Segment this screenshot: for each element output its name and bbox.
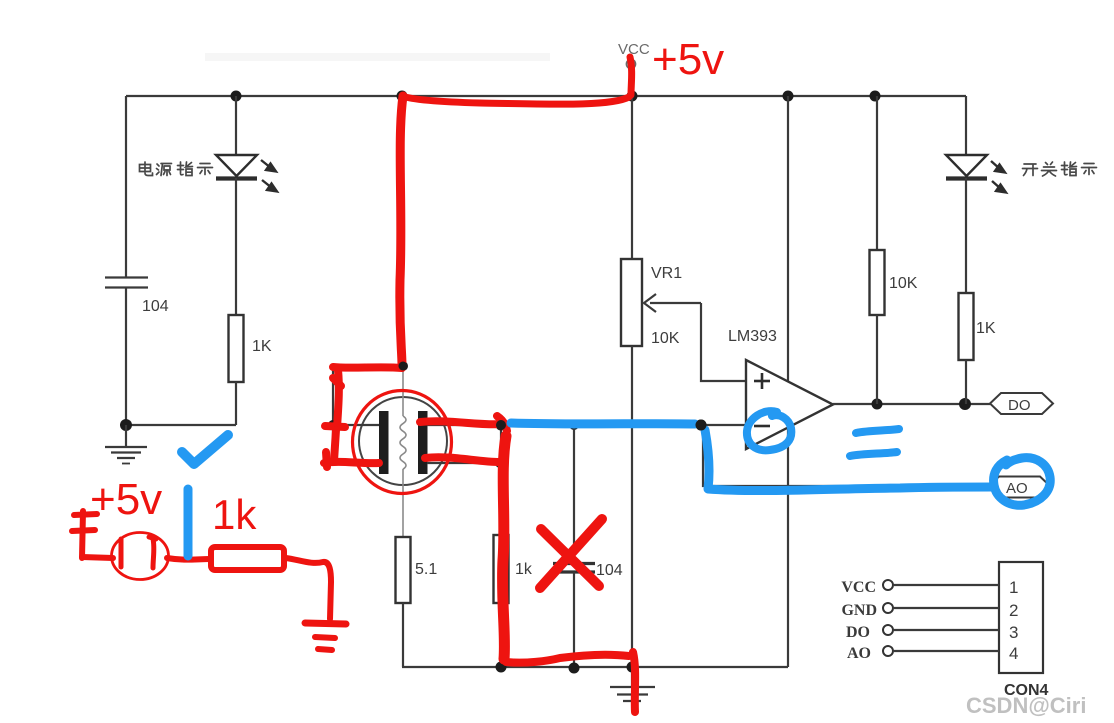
svg-text:CSDN@Ciri: CSDN@Ciri <box>966 693 1086 718</box>
wire R2 to bottom rail <box>500 603 502 667</box>
svg-text:LM393: LM393 <box>728 328 777 345</box>
svg-text:GND: GND <box>841 602 877 619</box>
wire C2 upper <box>573 425 575 562</box>
wire bottom-left <box>126 424 236 426</box>
net tag DO <box>990 393 1053 414</box>
svg-text:3: 3 <box>1009 623 1018 642</box>
blue trace minus to AO <box>705 430 993 491</box>
wire top VCC rail <box>126 95 966 97</box>
ground GND1 <box>105 425 147 464</box>
node top rail junction C (VCC) <box>627 91 638 102</box>
wire bottom ground rail <box>402 666 788 668</box>
svg-text:DO: DO <box>1008 397 1031 414</box>
red trace VCC to top rail <box>630 57 632 95</box>
resistor R5 5.1 <box>396 537 411 603</box>
faint scan smudge top <box>205 53 550 61</box>
wire R1 to bottom-left <box>235 382 237 425</box>
svg-text:104: 104 <box>596 562 623 579</box>
wire D2 to R4 <box>965 178 967 293</box>
wire 10K pullup lower <box>876 315 878 404</box>
connector pin 3 <box>883 623 1018 642</box>
blue trace analog wire <box>511 423 695 424</box>
node output junction D2 <box>959 398 971 410</box>
red hand battery symbol <box>72 511 97 558</box>
capacitor C2 104 <box>553 564 595 573</box>
red hand sensor circle <box>112 533 169 580</box>
potentiometer VR1 wiper arrow <box>644 294 701 312</box>
wire sensor right pin lower <box>427 462 501 464</box>
node top rail junction B <box>397 91 408 102</box>
red trace sensor right pin lower <box>425 457 500 462</box>
node top rail junction D <box>783 91 794 102</box>
red trace sensor VCC drop <box>400 96 403 366</box>
red hand wire battery to sensor <box>82 557 113 558</box>
LED D1 (power indicator) <box>216 155 277 192</box>
blue circle around AO tag <box>994 458 1051 506</box>
op-amp U1 LM393 <box>746 360 833 449</box>
wire left rail lower <box>125 288 127 425</box>
sensor electrode right <box>418 411 428 474</box>
node op-amp minus junction (top copy) <box>696 420 707 431</box>
svg-text:4: 4 <box>1009 644 1018 663</box>
blue vertical bar <box>184 489 193 556</box>
sensor heater coil <box>400 416 406 469</box>
wire analog signal <box>501 424 746 426</box>
wire left rail upper <box>125 96 127 277</box>
sensor heater wire upper (grey) <box>402 366 404 416</box>
node sensor heater top junction <box>398 361 408 371</box>
svg-text:DO: DO <box>846 624 870 641</box>
svg-text:104: 104 <box>142 298 169 315</box>
blue equals sign <box>850 429 899 456</box>
node sensor output junction <box>496 420 507 431</box>
node bottom rail junction C2 <box>569 663 580 674</box>
wire wiper to op-amp plus <box>701 303 746 381</box>
wire op-amp minus AO branch <box>703 425 988 486</box>
resistor R1 1K (left) <box>229 315 244 382</box>
node sensor heater top junction (top copy) <box>399 362 408 371</box>
svg-text:2: 2 <box>1009 601 1018 620</box>
potentiometer VR1 body <box>621 259 642 346</box>
power VCC terminal <box>618 41 650 96</box>
svg-text:+5v: +5v <box>90 475 162 524</box>
node left-ground junction <box>120 419 132 431</box>
svg-text:5.1: 5.1 <box>415 561 437 578</box>
wire 10K pullup upper <box>876 96 878 250</box>
svg-text:1k: 1k <box>515 561 533 578</box>
wire VR1 to bottom rail <box>631 346 633 667</box>
wire LM393 V+ column <box>787 96 789 667</box>
svg-text:VCC: VCC <box>841 579 876 596</box>
wire sensor right pin upper <box>427 424 501 426</box>
node sensor output junction (top copy) <box>496 420 506 430</box>
red hand ground <box>305 623 346 650</box>
svg-text:VCC: VCC <box>618 41 650 58</box>
ground GND2 <box>610 667 655 701</box>
node sensor lower pin junction <box>495 458 505 468</box>
red trace sensor left feed <box>324 367 402 467</box>
node bottom rail junction R2 <box>496 662 507 673</box>
red cross X over C2 <box>540 519 602 588</box>
wire D2 column upper <box>965 96 967 155</box>
label 电源指示 <box>140 162 213 176</box>
svg-text:1K: 1K <box>976 320 996 337</box>
red hand resistor 1k body <box>211 547 284 570</box>
label 开关指示 <box>1023 162 1097 176</box>
capacitor C1 104 <box>105 278 148 288</box>
wire C2 lower <box>573 572 575 667</box>
blue check mark <box>182 435 228 464</box>
node sensor left pin junction <box>328 420 338 430</box>
red hand wire sensor to resistor <box>167 558 210 560</box>
red trace output column down <box>503 436 506 659</box>
LED D2 (switch indicator) <box>946 155 1006 193</box>
wire sensor output column <box>500 425 502 535</box>
gas sensor MQ1 body <box>359 397 447 485</box>
sensor heater wire lower (grey) <box>402 469 404 537</box>
svg-text:10K: 10K <box>651 330 680 347</box>
node bottom rail junction GND <box>627 662 638 673</box>
red blob right pin corner <box>497 416 507 431</box>
wire sensor VCC drop <box>402 96 403 366</box>
red hand wire resistor to ground <box>286 558 331 619</box>
svg-text:1: 1 <box>1009 578 1018 597</box>
connector CON4 body <box>999 562 1043 673</box>
svg-text:VR1: VR1 <box>651 265 682 282</box>
svg-text:10K: 10K <box>889 275 918 292</box>
red trace bottom rail to ground <box>506 655 629 663</box>
node cap C2 top junction <box>569 420 579 430</box>
wire R4 to output <box>965 360 967 404</box>
connector pin 2 <box>883 601 1018 620</box>
resistor R4 1K (right) <box>959 293 974 360</box>
node top rail junction A <box>231 91 242 102</box>
net tag AO <box>988 477 1051 498</box>
svg-text:+5v: +5v <box>652 35 724 84</box>
blue circle around minus input <box>747 411 791 450</box>
red circle around sensor <box>353 391 452 494</box>
connector pin 1 <box>883 578 1018 597</box>
LED D1 wire lower <box>235 178 237 315</box>
wire R5 to bottom rail <box>402 603 404 667</box>
resistor R2 1k (middle) <box>494 535 509 603</box>
resistor R3 10K <box>870 250 885 315</box>
red trace top rail VCC to sensor column <box>402 96 629 104</box>
svg-text:AO: AO <box>1006 480 1028 497</box>
red trace sensor right pin upper <box>420 421 504 424</box>
wire sensor left pins <box>333 368 403 463</box>
svg-text:1k: 1k <box>212 491 257 538</box>
node op-amp minus junction <box>696 420 707 431</box>
svg-text:1K: 1K <box>252 338 272 355</box>
wire op-amp output <box>833 403 990 405</box>
node output junction 10K <box>872 399 883 410</box>
LED D1 wire upper <box>235 96 237 155</box>
wire VR1 upper <box>631 96 633 259</box>
svg-text:AO: AO <box>847 645 871 662</box>
red hand sensor electrode strokes <box>121 537 156 568</box>
connector pin 4 <box>883 644 1018 663</box>
red trace through ground GND2 <box>633 652 635 712</box>
sensor electrode left <box>379 411 389 474</box>
node top rail junction E <box>870 91 881 102</box>
